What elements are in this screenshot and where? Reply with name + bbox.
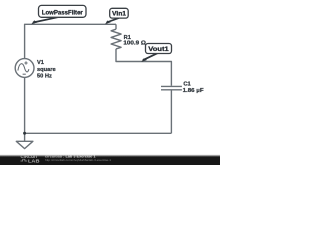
svg-text:1.86 µF: 1.86 µF xyxy=(183,88,205,94)
svg-text:square: square xyxy=(37,67,56,73)
svg-text:LowPassFilter: LowPassFilter xyxy=(42,10,84,17)
svg-text:C1: C1 xyxy=(183,82,190,88)
svg-text:LAB: LAB xyxy=(28,159,40,164)
svg-text:Vout1: Vout1 xyxy=(148,46,169,53)
svg-text:http://circuitlab.com/c/vqh4ah: http://circuitlab.com/c/vqh4ah6a/lab-3-e… xyxy=(45,158,111,162)
svg-text:50 Hz: 50 Hz xyxy=(37,74,52,80)
svg-text:V1: V1 xyxy=(37,60,44,66)
svg-text:100.9 Ω: 100.9 Ω xyxy=(123,40,146,46)
svg-text:Vin1: Vin1 xyxy=(112,11,127,18)
